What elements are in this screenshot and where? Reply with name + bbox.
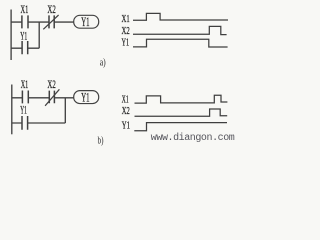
svg-text:X2: X2 <box>47 77 55 91</box>
svg-text:b): b) <box>98 136 104 147</box>
svg-text:a): a) <box>100 57 106 68</box>
svg-text:www.diangon.com: www.diangon.com <box>151 132 235 144</box>
svg-text:X2: X2 <box>47 2 55 16</box>
svg-text:X2: X2 <box>122 26 130 37</box>
svg-text:Y1: Y1 <box>81 89 89 104</box>
svg-text:X1: X1 <box>21 2 29 16</box>
svg-text:X1: X1 <box>122 95 129 106</box>
svg-text:X2: X2 <box>122 106 130 117</box>
svg-text:Y1: Y1 <box>81 14 89 29</box>
svg-text:X1: X1 <box>21 77 29 91</box>
svg-text:Y1: Y1 <box>20 103 27 117</box>
svg-text:X1: X1 <box>122 14 130 25</box>
svg-text:Y1: Y1 <box>122 37 130 48</box>
svg-text:Y1: Y1 <box>20 29 27 43</box>
svg-text:Y1: Y1 <box>122 120 130 131</box>
